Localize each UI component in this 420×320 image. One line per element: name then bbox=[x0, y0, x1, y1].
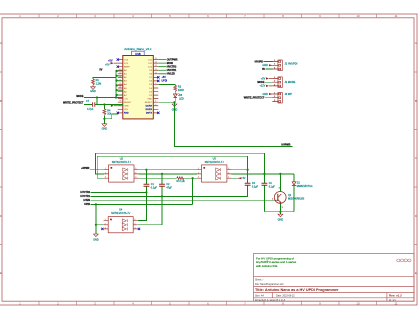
wire R2 to LED bbox=[174, 91, 176, 94]
wire U1 row13 GND bbox=[158, 101, 174, 103]
capacitor C3 bbox=[245, 170, 259, 197]
capacitor C7 bbox=[86, 100, 95, 111]
svg-text:UPDI: UPDI bbox=[162, 80, 168, 83]
junction node rail a / C3 bbox=[247, 169, 249, 171]
svg-text:WRITE_PROTECT: WRITE_PROTECT bbox=[63, 102, 84, 105]
svg-text:Arduino_Nano_v3.x: Arduino_Nano_v3.x bbox=[124, 47, 152, 51]
ground at U1 right bbox=[172, 104, 178, 111]
svg-text:+5V: +5V bbox=[124, 98, 128, 100]
svg-text:+5V: +5V bbox=[108, 60, 113, 63]
wire to U4 pin2 bbox=[96, 224, 104, 226]
wire R3 to U3 bbox=[184, 177, 197, 179]
junction node R4/GND bbox=[103, 118, 105, 120]
wire loop H3 top to U2 pin2 bbox=[96, 153, 265, 174]
svg-text:HVUPD: HVUPD bbox=[255, 60, 264, 63]
svg-text:4.7µF: 4.7µF bbox=[87, 108, 94, 111]
svg-text:+5V: +5V bbox=[105, 64, 110, 67]
wire MODE to WP row bbox=[96, 98, 98, 105]
svg-text:UPDI: UPDI bbox=[84, 203, 90, 206]
svg-text:D0/TX: D0/TX bbox=[146, 113, 153, 115]
junction node C1/row a bbox=[145, 169, 147, 171]
svg-text:File: NanoProgrammer.sch: File: NanoProgrammer.sch bbox=[255, 283, 284, 286]
no-connect X on U4 pins bbox=[101, 228, 140, 230]
wire R1 top to bus bbox=[93, 77, 116, 79]
U2 pin numbers bbox=[105, 168, 137, 179]
wire +5PWR to U2 pin1 bbox=[90, 169, 104, 171]
power symbol +5V into U1 left pin 2 bbox=[105, 62, 118, 67]
junction node WP/R4 bbox=[103, 103, 105, 105]
title block logo ovals bbox=[397, 259, 411, 262]
svg-text:HVCTR2: HVCTR2 bbox=[167, 66, 177, 69]
svg-text:RESET: RESET bbox=[145, 102, 153, 104]
column tick marks bottom bbox=[39, 301, 377, 305]
power symbol +12V at J2 pin3 bbox=[260, 85, 273, 88]
comment text bbox=[256, 256, 297, 267]
wire Q1 emitter bbox=[279, 203, 281, 211]
wire row2 to C3 bbox=[90, 186, 247, 196]
svg-text:SN74LVC07A-7-/: SN74LVC07A-7-/ bbox=[205, 161, 224, 164]
wire rail b from U3 pin5 bbox=[232, 173, 295, 175]
svg-text:VIN: VIN bbox=[124, 109, 128, 111]
U1 right pin numbers bbox=[155, 58, 157, 106]
svg-text:A: A bbox=[415, 41, 417, 45]
wire R4 top bbox=[103, 105, 105, 109]
USB connector box on U1 bbox=[132, 51, 145, 56]
U1 right pin stubs bbox=[153, 60, 158, 113]
svg-text:24: 24 bbox=[119, 87, 121, 89]
wire to ground bbox=[103, 119, 105, 124]
ground under R4 bbox=[102, 124, 108, 131]
ground under U4 riser bbox=[93, 234, 99, 242]
svg-text:Sheet: /: Sheet: / bbox=[255, 279, 264, 282]
svg-text:HVCTR2: HVCTR2 bbox=[80, 191, 90, 194]
svg-text:0.1µF: 0.1µF bbox=[151, 187, 158, 190]
svg-text:E: E bbox=[0, 271, 2, 275]
junction node emitter/bottom rail bbox=[279, 211, 281, 213]
junction node U4 pin2 bbox=[95, 224, 97, 226]
wire WRITE_PROTECT right bbox=[95, 104, 123, 106]
svg-text:GND: GND bbox=[147, 98, 152, 100]
junction node C2/row b bbox=[161, 173, 163, 175]
U4 pin numbers bbox=[105, 219, 137, 229]
svg-text:3: 3 bbox=[155, 104, 156, 106]
svg-text:47µF: 47µF bbox=[166, 187, 172, 190]
svg-text:B: B bbox=[0, 99, 2, 103]
svg-text:10: 10 bbox=[356, 301, 360, 305]
svg-text:11: 11 bbox=[155, 72, 157, 74]
svg-text:8: 8 bbox=[155, 83, 156, 85]
wire row3 to Q1 base bbox=[90, 199, 274, 201]
svg-text:Date: 2023-06-22: Date: 2023-06-22 bbox=[276, 295, 295, 298]
svg-text:B: B bbox=[415, 99, 417, 103]
svg-text:J1 HVUPDI: J1 HVUPDI bbox=[285, 63, 298, 66]
junction node rail b / Q1 collector bbox=[279, 173, 281, 175]
svg-text:MJD340RK183: MJD340RK183 bbox=[288, 197, 305, 200]
wire MODE bbox=[84, 97, 123, 99]
svg-text:11: 11 bbox=[394, 14, 397, 18]
U1 left pin names bbox=[124, 59, 132, 114]
svg-text:GND: GND bbox=[93, 239, 99, 242]
U1 right pin names bbox=[145, 59, 153, 114]
svg-text:D1/RX: D1/RX bbox=[146, 109, 153, 111]
wire row4 bbox=[90, 203, 192, 205]
svg-text:GND: GND bbox=[262, 64, 268, 67]
wire down to HVPWR rail bbox=[175, 102, 293, 146]
svg-text:R3 1.2k: R3 1.2k bbox=[177, 180, 186, 183]
ground under Q1 bbox=[278, 214, 284, 221]
wire row1 bbox=[90, 191, 146, 193]
svg-text:GND: GND bbox=[124, 106, 129, 108]
resistor R3 bbox=[177, 177, 186, 183]
wire Q1 collector bbox=[279, 174, 281, 192]
op-amp U1 Arduino Nano body bbox=[123, 56, 154, 119]
junction node R3/row4 riser bbox=[192, 177, 194, 179]
svg-text:HVEN: HVEN bbox=[83, 199, 90, 202]
resistor R2 bbox=[174, 85, 184, 92]
svg-text:E: E bbox=[415, 271, 417, 275]
power symbol GND at J1 pin2 bbox=[262, 64, 272, 67]
power symbol +5V into U1 RESET pin bbox=[111, 105, 118, 107]
junction node rail b / C4 bbox=[263, 173, 265, 175]
svg-text:GND: GND bbox=[90, 90, 96, 93]
connector J2 body bbox=[272, 77, 282, 88]
wire J1 pin1 bbox=[264, 61, 273, 63]
svg-text:MODE: MODE bbox=[257, 81, 265, 84]
optocoupler U2 body bbox=[109, 165, 134, 182]
svg-text:HVLED: HVLED bbox=[167, 73, 175, 76]
wire LED to GND row bbox=[174, 98, 176, 103]
svg-text:+5PWR: +5PWR bbox=[81, 167, 90, 170]
wire vertical bus left of U1 bbox=[116, 71, 123, 98]
svg-text:1.2M: 1.2M bbox=[96, 83, 102, 86]
svg-text:Title: Arduino Nano as a HV UP: Title: Arduino Nano as a HV UPDI Program… bbox=[255, 288, 339, 292]
svg-text:100R: 100R bbox=[178, 89, 184, 92]
wire bottom rail bbox=[264, 211, 294, 213]
svg-text:RXD: RXD bbox=[124, 113, 129, 115]
svg-text:RESET: RESET bbox=[124, 102, 132, 104]
connector J3 body bbox=[272, 92, 282, 103]
svg-text:HVPWR: HVPWR bbox=[281, 143, 290, 146]
svg-text:OUTPWR: OUTPWR bbox=[167, 58, 178, 61]
no-connect X on U1 right rows 6-7 bbox=[157, 76, 159, 82]
wire J1 pin3 bbox=[266, 68, 273, 70]
wire J3 pin2 bbox=[265, 97, 273, 99]
svg-text:14: 14 bbox=[155, 62, 157, 64]
junction node C2/row2 bbox=[161, 195, 163, 197]
optocoupler U3 body bbox=[202, 165, 227, 182]
connector J1 body bbox=[272, 60, 282, 71]
svg-text:Rev: v1.2: Rev: v1.2 bbox=[389, 294, 402, 298]
svg-text:0.1µF: 0.1µF bbox=[269, 186, 276, 189]
wire GND riser to U4 bbox=[95, 204, 97, 234]
svg-text:5V: 5V bbox=[243, 177, 246, 180]
svg-text:5V: 5V bbox=[262, 68, 265, 71]
svg-text:with Arduino IDE: with Arduino IDE bbox=[256, 264, 277, 268]
title block frame bbox=[254, 254, 415, 302]
junction node LED/GND bbox=[173, 101, 175, 103]
junction node C1/row1 bbox=[145, 191, 147, 193]
U2 pin stubs bbox=[104, 170, 139, 179]
svg-text:0.1µF: 0.1µF bbox=[252, 186, 259, 189]
svg-text:J3 WP: J3 WP bbox=[285, 93, 293, 96]
svg-text:19: 19 bbox=[119, 69, 121, 71]
svg-text:GND: GND bbox=[278, 219, 284, 222]
wire R4 bottom to VIN pin bbox=[104, 114, 117, 119]
U3 pin stubs bbox=[197, 170, 232, 179]
svg-text:23: 23 bbox=[119, 83, 121, 85]
junction node MODE/bus bbox=[115, 96, 117, 98]
power symbol +5V at J2 pin1 bbox=[261, 77, 272, 80]
ground under R1 bbox=[90, 85, 96, 93]
zener diode D1 bbox=[292, 174, 313, 212]
svg-text:12: 12 bbox=[155, 69, 157, 71]
svg-text:11: 11 bbox=[394, 301, 397, 305]
U3 pin numbers bbox=[198, 168, 230, 179]
svg-text:20: 20 bbox=[119, 72, 121, 74]
wire WRITE_PROTECT left bbox=[84, 104, 92, 106]
junction node row4/GND riser bbox=[95, 203, 97, 205]
svg-text:SN74LVC07A-7-/: SN74LVC07A-7-/ bbox=[112, 161, 131, 164]
wire U2 to U3 row a bbox=[139, 169, 197, 171]
wire riser row4 bbox=[192, 178, 194, 204]
wire U3 pin6 to C3 rail bbox=[232, 169, 248, 171]
junction node MODE/C7 branch bbox=[96, 96, 98, 98]
svg-text:HVCTR1: HVCTR1 bbox=[167, 69, 177, 72]
svg-text:MM3Z15VT1G: MM3Z15VT1G bbox=[297, 185, 313, 188]
wire J2 pin2 bbox=[265, 81, 272, 83]
svg-text:GND: GND bbox=[262, 93, 268, 96]
row tick marks sides bbox=[0, 72, 417, 245]
svg-text:28: 28 bbox=[119, 101, 121, 103]
svg-text:WRITE_PROTECT: WRITE_PROTECT bbox=[244, 97, 265, 100]
capacitor C1 bbox=[138, 170, 158, 221]
column tick marks top bbox=[39, 14, 377, 18]
power symbol GND at J3 pin1 bbox=[262, 93, 272, 96]
transistor Q1 bbox=[272, 188, 305, 209]
LED D3 bbox=[173, 94, 184, 101]
svg-text:AREF: AREF bbox=[124, 66, 130, 69]
svg-text:HVCTR1: HVCTR1 bbox=[80, 195, 90, 198]
wires U1 right rows 1-5 bbox=[158, 60, 166, 74]
capacitor C4 bbox=[262, 174, 276, 212]
wire U2 to U3 row b bbox=[139, 173, 197, 175]
svg-text:LED: LED bbox=[179, 97, 184, 100]
svg-text:GND: GND bbox=[102, 127, 108, 130]
svg-text:+12V: +12V bbox=[260, 85, 266, 88]
U4 pin stubs bbox=[104, 221, 138, 229]
optocoupler U4 body bbox=[108, 217, 133, 233]
capacitor C2 bbox=[138, 174, 173, 225]
svg-text:Id: 1/1: Id: 1/1 bbox=[389, 299, 396, 302]
U1 left pin stubs bbox=[118, 60, 123, 113]
svg-text:15: 15 bbox=[155, 58, 157, 60]
wire U2 to R3 row c bbox=[139, 177, 177, 179]
U1 left pin numbers bbox=[119, 69, 121, 107]
svg-text:MODE: MODE bbox=[76, 95, 84, 98]
svg-text:MOSI: MOSI bbox=[167, 62, 173, 65]
svg-text:D1/RX: D1/RX bbox=[146, 106, 153, 108]
svg-text:KiCad E.D.A. kicad (5.1.1)-3: KiCad E.D.A. kicad (5.1.1)-3 bbox=[255, 299, 286, 302]
svg-text:13: 13 bbox=[155, 65, 157, 67]
svg-text:10: 10 bbox=[356, 14, 360, 18]
wire to ground Q1 bbox=[279, 212, 281, 215]
junction dots on bus bbox=[115, 70, 117, 96]
resistor R4 bbox=[103, 109, 112, 116]
resistor R1 bbox=[92, 79, 102, 86]
wire U1 row8 to R2 bbox=[158, 83, 175, 86]
wire loop H4 top to U2 pin3 bbox=[97, 156, 247, 178]
svg-text:5V: 5V bbox=[99, 69, 102, 72]
power symbol +5V at U3 pin4 bbox=[232, 177, 246, 180]
svg-text:Size: A4: Size: A4 bbox=[255, 295, 264, 298]
svg-text:+5V: +5V bbox=[261, 77, 266, 80]
svg-text:A: A bbox=[0, 41, 2, 45]
svg-text:4: 4 bbox=[155, 101, 156, 103]
no-connect X marks on U1 pins bbox=[117, 58, 160, 114]
svg-text:SN74LVC07A-7-/: SN74LVC07A-7-/ bbox=[111, 212, 130, 215]
svg-text:J2 MODE: J2 MODE bbox=[285, 81, 296, 84]
